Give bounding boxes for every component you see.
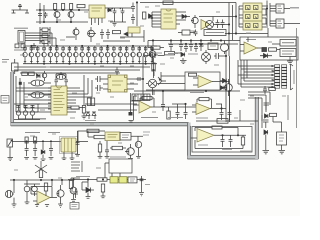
wire left cap branch bbox=[77, 131, 80, 154]
wire header feeders bbox=[238, 60, 247, 87]
capacitor C5 bbox=[106, 29, 110, 39]
capacitor C15 bbox=[95, 85, 103, 91]
wire u9 feedback bbox=[197, 99, 212, 108]
junction dots bus bbox=[152, 40, 221, 45]
wire strip right bbox=[216, 91, 230, 108]
transistor Q1 bbox=[54, 10, 60, 22]
transistor Q5 bbox=[191, 15, 198, 28]
ground G3 bbox=[82, 113, 87, 119]
capacitor C43 bbox=[179, 41, 183, 52]
wire r37 bbox=[148, 41, 164, 48]
wire b3 drops bbox=[105, 163, 120, 180]
wire block2 bus bbox=[10, 180, 70, 193]
transistor array Q15 bbox=[55, 46, 60, 64]
wire x153 vertical bbox=[153, 58, 155, 78]
ground G11 bbox=[41, 159, 46, 161]
wire right verticals bbox=[229, 3, 236, 57]
capacitor C10 bbox=[216, 20, 220, 29]
resistor R7 bbox=[113, 31, 121, 34]
capacitor C29 bbox=[229, 135, 233, 147]
ground G21 bbox=[58, 204, 63, 207]
resistor R27 bbox=[34, 137, 37, 143]
label bus text1 bbox=[168, 53, 178, 55]
capacitor C24 bbox=[176, 108, 180, 119]
wire block1 bottom links bbox=[100, 141, 126, 156]
transistor array Q28 bbox=[137, 46, 142, 64]
resistor R35 bbox=[97, 178, 107, 181]
capacitor C7 polarized bbox=[120, 8, 125, 17]
wire U3 left pins bbox=[239, 6, 243, 27]
IC U11 bbox=[105, 132, 120, 141]
diode bridge DB1 bbox=[154, 72, 166, 95]
transistor array Q30 bbox=[150, 46, 155, 64]
microphone MK1 bbox=[12, 5, 30, 14]
wire top rail to U1 bbox=[88, 8, 132, 22]
ground G10 bbox=[33, 158, 38, 160]
junction dots bay bbox=[222, 135, 239, 136]
terminal box TB1 bbox=[280, 40, 296, 47]
junction blob JB1 bbox=[19, 82, 22, 85]
capacitor C47 bbox=[263, 86, 267, 94]
capacitor C13 bbox=[65, 77, 69, 86]
connector J1 bbox=[18, 31, 25, 44]
wire U5 pin stubs right bbox=[67, 88, 92, 112]
ground G4 bbox=[180, 61, 187, 64]
junction dots topmid bbox=[136, 2, 236, 25]
transistor array Q16 bbox=[61, 46, 66, 64]
header pin arrows bbox=[272, 65, 275, 88]
wire bus y91 bbox=[134, 90, 240, 92]
resistor R15 bbox=[91, 98, 94, 106]
transistor array Q24 bbox=[112, 46, 117, 64]
capacitor C45 bbox=[189, 41, 193, 52]
capacitor C42 bbox=[169, 41, 173, 52]
capacitor C26 bbox=[220, 108, 224, 120]
ground G19 bbox=[136, 157, 141, 159]
resistor R26 bbox=[25, 137, 28, 143]
transistor array Q10 bbox=[23, 46, 28, 64]
ground G9 bbox=[24, 158, 29, 160]
transistor Q32 bbox=[42, 71, 47, 81]
capacitor C20 bbox=[17, 106, 21, 108]
label bus text3 bbox=[152, 52, 162, 54]
wire U5 pin stubs left bbox=[48, 88, 51, 112]
resistor R11 bbox=[22, 72, 28, 76]
wire lod drops bbox=[240, 110, 262, 121]
diode D11 bbox=[264, 130, 268, 150]
wire relay out bbox=[64, 142, 88, 159]
wire U3 right pins bbox=[262, 6, 268, 27]
wire x143 vertical bbox=[142, 56, 144, 100]
transistor Q4 bbox=[88, 27, 95, 42]
resistor R32 bbox=[39, 170, 42, 178]
junction dots mr bbox=[142, 55, 226, 91]
label B3 text bbox=[110, 156, 126, 158]
ground G2g bbox=[287, 57, 293, 65]
sheet border right band of bay bbox=[255, 97, 258, 159]
wire vertical x137 bbox=[133, 3, 236, 27]
resistor R29 bbox=[94, 135, 105, 138]
opamp box A1 bbox=[240, 37, 298, 60]
capacitor C6 polarized bbox=[112, 8, 117, 17]
resistor R28 bbox=[87, 129, 99, 132]
diode D9 bbox=[181, 52, 185, 60]
diode D3 bbox=[149, 14, 153, 18]
resistor R33 bbox=[44, 183, 47, 191]
resistor R17 bbox=[152, 63, 155, 71]
op-amp U10 bbox=[191, 129, 246, 143]
capacitor C44 bbox=[184, 44, 188, 52]
label q35 text bbox=[143, 132, 150, 135]
transistor Q35 bbox=[135, 141, 141, 156]
capacitor C38 electrolytic bbox=[24, 184, 40, 196]
switch S1 bbox=[12, 59, 19, 74]
diode D4 bbox=[182, 15, 190, 19]
wire block1b top bbox=[78, 131, 105, 142]
label bus text2 bbox=[188, 53, 198, 55]
transistor Q37 bbox=[57, 185, 64, 204]
resistor R4 bbox=[77, 5, 85, 8]
capacitor C3 bbox=[32, 43, 36, 50]
label P1 text bbox=[293, 70, 295, 84]
label box LB1 bbox=[70, 203, 79, 210]
capacitor C9 bbox=[131, 14, 135, 24]
resistor R18 bbox=[189, 73, 197, 76]
ground G16 bbox=[98, 157, 103, 159]
capacitor C39 bbox=[73, 189, 78, 199]
wire J1 pin1 bbox=[25, 33, 52, 46]
wire left col verticals bbox=[16, 76, 51, 112]
label sheet text bbox=[18, 118, 46, 120]
capacitor C11 bbox=[221, 20, 225, 29]
op-amp U8 bbox=[139, 101, 196, 113]
wire lod y121 bbox=[196, 120, 258, 122]
logic gate G2 bbox=[270, 19, 284, 28]
ground G22 bbox=[25, 196, 30, 204]
wire G2 output bbox=[284, 23, 300, 25]
resistor R24 bbox=[241, 137, 244, 145]
wire u11 out bbox=[131, 136, 143, 141]
ground G20 bbox=[12, 198, 17, 208]
wire mid cluster bbox=[66, 34, 130, 42]
label U10 text bbox=[198, 144, 208, 146]
wire block3 bus bbox=[68, 179, 146, 181]
capacitor C12 bbox=[55, 77, 59, 86]
capacitor C32 bbox=[25, 143, 29, 156]
wire main bus y40 bbox=[148, 40, 240, 42]
wire led row bbox=[14, 104, 40, 120]
label box TP2 bbox=[1, 96, 9, 104]
capacitor C37 electrolytic bbox=[24, 180, 30, 196]
transistor array Q23 bbox=[105, 46, 110, 64]
ground G26 bbox=[101, 192, 106, 198]
resistor R37 bbox=[151, 46, 160, 49]
junction dots b3 bbox=[73, 179, 142, 180]
resistor R36 bbox=[101, 184, 104, 192]
resistor R5 bbox=[15, 44, 19, 48]
transistor array Q19 bbox=[80, 46, 85, 64]
relay K1 bbox=[60, 137, 78, 154]
resistor R13 bbox=[82, 106, 85, 114]
wire oa-a inputs bbox=[131, 93, 140, 120]
transistor array Q21 bbox=[93, 46, 98, 64]
dip switch SW1 bbox=[132, 94, 150, 101]
wire right edge bbox=[287, 95, 289, 120]
label strip text bbox=[168, 117, 183, 119]
zener D8 bbox=[92, 112, 96, 119]
wire under-bus 2 bbox=[14, 69, 140, 71]
ground G5 bbox=[129, 121, 134, 123]
resistor R25 bbox=[270, 113, 277, 116]
capacitor C46 bbox=[194, 44, 198, 52]
optocoupler bank U3 bbox=[243, 3, 262, 30]
diode D2 bbox=[107, 8, 112, 12]
resistor network column RN1 bbox=[40, 27, 50, 44]
LED L1 bbox=[16, 105, 21, 119]
resonator Y1 bbox=[28, 80, 51, 86]
capacitor C2 bbox=[44, 12, 48, 18]
wire J1 pin4 bbox=[25, 41, 44, 47]
opamp box A2 bbox=[185, 72, 220, 90]
triac Q33 bbox=[146, 79, 157, 95]
wire under K2 bbox=[120, 30, 144, 42]
capacitor C30 bbox=[264, 103, 270, 110]
box B3 bbox=[109, 159, 132, 173]
ground G17 bbox=[105, 157, 110, 159]
capacitor C36 bbox=[105, 141, 109, 156]
capacitor C18 bbox=[150, 52, 158, 58]
ground G12 bbox=[49, 158, 54, 160]
capacitor C34 bbox=[49, 143, 53, 156]
label speckle texts bbox=[14, 6, 286, 178]
diode D16 bbox=[221, 86, 224, 90]
wire a2 out vertical bbox=[226, 50, 230, 122]
ground G28 bbox=[71, 200, 76, 202]
sheet border left band bbox=[11, 72, 14, 126]
wire u10 feedback bbox=[195, 128, 238, 136]
junction dots tr bbox=[228, 8, 267, 34]
LED L3 bbox=[30, 105, 35, 119]
feedback resistor R23 bbox=[212, 126, 222, 129]
label G1 text bbox=[290, 7, 299, 9]
diode D6 bbox=[37, 74, 40, 78]
diode D14 bbox=[199, 41, 203, 52]
wire U1 pins bottom bbox=[92, 18, 103, 25]
logic gate G1 bbox=[270, 4, 284, 13]
wire bus VCC top bbox=[36, 10, 88, 22]
label bay text2 bbox=[240, 150, 252, 152]
pin header P1 bbox=[275, 65, 287, 88]
wire gate feed bbox=[213, 16, 236, 18]
resistor R2 bbox=[62, 4, 65, 10]
junction dots b2 bbox=[13, 179, 62, 180]
capacitor C8 bbox=[131, 3, 135, 12]
label R5 text bbox=[14, 49, 26, 51]
transistor array Q27 bbox=[131, 46, 136, 64]
relay contact K3b bbox=[119, 177, 127, 183]
transistor array Q18 bbox=[74, 46, 79, 64]
IC U1 regulator bbox=[89, 5, 105, 18]
buzzer BZ2 bbox=[202, 50, 211, 64]
capacitor C31 bbox=[263, 120, 269, 128]
resonator Y2 bbox=[28, 92, 51, 98]
ground G24 bbox=[45, 191, 49, 206]
wire bus y33 bbox=[225, 28, 268, 37]
capacitor C40 bbox=[140, 176, 144, 192]
capacitor C27 bbox=[228, 108, 232, 120]
capacitor C17 bbox=[136, 77, 143, 81]
resistor R10 bbox=[269, 48, 277, 51]
op-amp U12 bbox=[33, 191, 57, 204]
wire U6 left pins bbox=[103, 79, 108, 89]
transistor Q3 bbox=[73, 27, 79, 40]
wire gate input verticals bbox=[266, 1, 270, 29]
wire array top bus bbox=[23, 45, 157, 47]
capacitor C23 bbox=[161, 100, 165, 111]
junction dots top bus bbox=[39, 9, 79, 22]
capacitor C28 bbox=[221, 135, 225, 147]
box FL1 bbox=[178, 30, 195, 35]
wire top mid-right links bbox=[143, 53, 226, 56]
wire bay parts bbox=[195, 135, 243, 148]
sheet border bottom band bay bbox=[187, 156, 258, 159]
resistor R12 bbox=[29, 72, 35, 76]
ground G27 bbox=[86, 197, 91, 199]
wire U2 left pins bbox=[148, 12, 161, 27]
op-amp U9 bbox=[192, 103, 226, 115]
wire BZ1 out bbox=[199, 17, 230, 25]
wire vertical feed bbox=[40, 3, 44, 24]
LED L2 bbox=[23, 105, 28, 119]
wire G1 output bbox=[284, 8, 290, 10]
transistor Q31 bbox=[149, 47, 156, 62]
resistor R9 bbox=[163, 1, 173, 4]
transistor array Q29 bbox=[143, 46, 148, 64]
diode D10 bbox=[265, 114, 268, 118]
wire b2 right bbox=[71, 178, 80, 181]
wire under-bus 3 bbox=[20, 72, 120, 74]
capacitor C21 bbox=[24, 106, 28, 108]
ground G6 bbox=[263, 151, 270, 154]
microphone MK2 bbox=[5, 190, 14, 197]
label strip text2 bbox=[196, 117, 208, 119]
wire crossover X bbox=[35, 161, 47, 173]
wire lower feeders bbox=[248, 92, 270, 128]
capacitor C16 bbox=[115, 68, 119, 76]
transistor array Q12 bbox=[35, 46, 40, 64]
resistor R38 bbox=[269, 88, 276, 91]
wire r19 bbox=[67, 107, 85, 109]
resistor R14 bbox=[87, 98, 90, 106]
feedback resistor R22 bbox=[199, 98, 209, 101]
varistor RV1 bbox=[221, 41, 229, 55]
ground G13 bbox=[62, 158, 67, 160]
resistor R30 bbox=[98, 144, 101, 152]
box U11b bbox=[120, 133, 131, 141]
ground G1 bbox=[113, 24, 117, 27]
inductor L4 bbox=[217, 119, 228, 124]
junction dots array bbox=[31, 45, 147, 64]
resistor network RN2 bbox=[71, 161, 82, 172]
feedback resistor R20 bbox=[142, 97, 152, 100]
label box LB2 bbox=[204, 30, 226, 36]
capacitor C14 bbox=[95, 76, 103, 82]
label TP1 bbox=[2, 60, 9, 63]
capacitor C1 bbox=[38, 14, 42, 16]
wire block1 bus bbox=[13, 141, 62, 143]
op-amp U4 bbox=[240, 42, 262, 54]
IC U6 bbox=[108, 75, 127, 92]
resistor R8 bbox=[143, 12, 146, 19]
ground G14 bbox=[70, 158, 75, 160]
jack J2 bbox=[7, 139, 13, 147]
transistor array Q11 bbox=[29, 46, 33, 64]
wire mcu left pins bbox=[16, 100, 51, 112]
resistor R34 bbox=[69, 181, 72, 189]
wire r29 bbox=[88, 131, 94, 137]
wire strip mid bbox=[163, 91, 186, 111]
transistor array Q14 bbox=[48, 46, 53, 64]
wire J1 pin3 bbox=[25, 38, 56, 46]
pin header bracket bbox=[291, 64, 294, 90]
ground G15 bbox=[75, 155, 80, 157]
diode D5 bbox=[260, 54, 272, 58]
wire bridge links bbox=[146, 72, 185, 90]
wire q34 bbox=[273, 117, 282, 151]
component X2 dark bbox=[262, 48, 267, 52]
label a2 text bbox=[190, 92, 204, 94]
diode D15 bbox=[220, 79, 226, 83]
wire second bus y44 bbox=[168, 43, 238, 45]
label u8 text bbox=[141, 117, 158, 119]
label zener text bbox=[85, 120, 96, 122]
box PS1 bbox=[208, 43, 218, 50]
wire under-bus 1 bbox=[14, 66, 150, 68]
transistor Q39 bbox=[224, 79, 232, 96]
wire U6 right pins bbox=[127, 79, 143, 89]
resistor R6 bbox=[21, 44, 25, 48]
transistor Q38 bbox=[70, 184, 77, 199]
wire u12 feedback bbox=[31, 187, 52, 198]
crystal X1 bbox=[57, 75, 66, 80]
label r35 text bbox=[76, 176, 90, 178]
transistor array Q22 bbox=[99, 46, 104, 64]
resistor R1 bbox=[54, 4, 57, 10]
resistor R19 bbox=[71, 106, 79, 109]
diode D12 bbox=[41, 143, 45, 158]
op-amp U7 bbox=[193, 76, 226, 88]
transistor array Q17 bbox=[67, 46, 72, 64]
wire U2 right pins bbox=[176, 12, 186, 24]
IC U5 MCU bbox=[51, 86, 67, 115]
junction dots strip bbox=[162, 90, 230, 109]
wire right verticals of U5 bbox=[84, 75, 92, 105]
resistor R16 bbox=[165, 52, 175, 55]
wire crystal link bbox=[56, 72, 66, 77]
resistor R3 bbox=[70, 4, 73, 10]
resistor R21 bbox=[167, 111, 170, 119]
transistor array Q25 bbox=[118, 46, 123, 64]
ground G23 bbox=[35, 205, 39, 207]
ground G8 bbox=[8, 147, 14, 161]
relay contact K3c bbox=[128, 177, 137, 183]
transistor Q2 bbox=[68, 10, 74, 22]
label U4 text bbox=[246, 39, 256, 41]
sheet border bottom band left bbox=[11, 123, 189, 126]
capacitor C4 bbox=[100, 29, 104, 39]
wire right sheet edge bbox=[296, 28, 298, 128]
buzzer BZ1 with opamp bbox=[201, 20, 214, 30]
